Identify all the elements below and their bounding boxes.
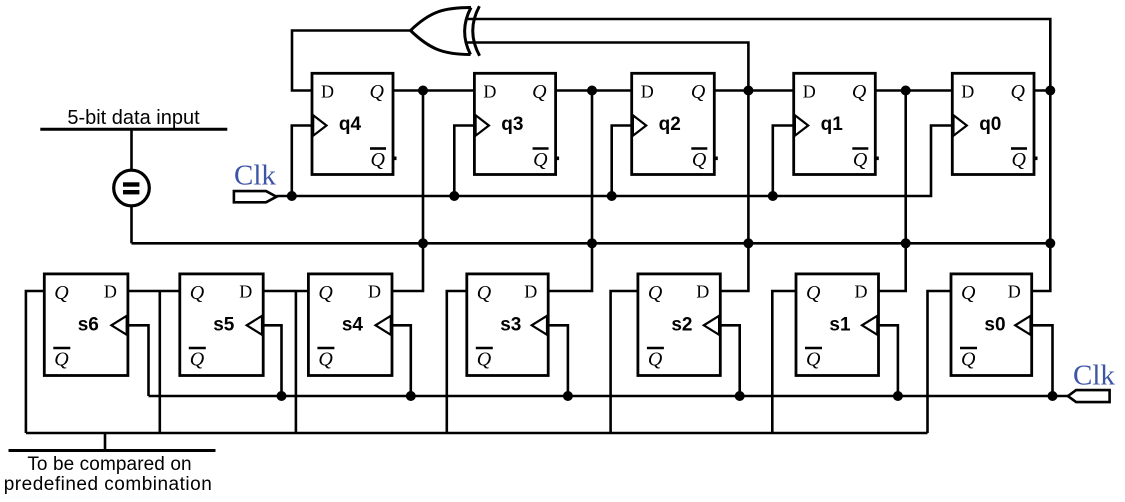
junction on q4 Q output bbox=[418, 86, 428, 96]
wire: s6 D to s5 Q link bbox=[128, 290, 180, 293]
D flip-flop s0 bbox=[951, 274, 1032, 376]
svg-text:D: D bbox=[104, 282, 117, 302]
wire: q1 Q down to s1 D bbox=[879, 91, 906, 292]
D flip-flop s4 bbox=[308, 274, 392, 376]
svg-text:D: D bbox=[524, 282, 537, 302]
wire: q4 Q down to s4 D bbox=[392, 91, 423, 292]
wire: q2 Q to q1 D bbox=[714, 89, 793, 92]
wire: s1 Q output down to compare line bbox=[772, 291, 796, 433]
wire: clock tap to s0 bbox=[1032, 325, 1053, 396]
svg-text:Q: Q bbox=[533, 149, 548, 171]
D flip-flop q2 bbox=[632, 73, 718, 174]
svg-text:Q: Q bbox=[532, 81, 547, 103]
svg-text:Q: Q bbox=[853, 149, 868, 171]
svg-text:Q: Q bbox=[318, 349, 333, 371]
svg-text:Q: Q bbox=[852, 81, 867, 103]
wire: s6 Q output down to compare line bbox=[26, 291, 44, 433]
junction on q2 Q output bbox=[743, 86, 753, 96]
svg-text:q3: q3 bbox=[501, 114, 523, 135]
svg-text:Q: Q bbox=[806, 282, 821, 304]
svg-text:q0: q0 bbox=[979, 114, 1001, 135]
D flip-flop q0 bbox=[952, 73, 1037, 174]
wire: q0 Q down to s0 D bbox=[1032, 91, 1051, 292]
wire: data input to comparator bbox=[130, 129, 133, 171]
wire: clock tap to q2 bbox=[612, 126, 632, 197]
wire: q2 Q down to s2 D bbox=[720, 91, 748, 292]
svg-text:predefined combination: predefined combination bbox=[4, 474, 213, 495]
wire: s5 D to s4 Q link bbox=[263, 290, 308, 293]
wire: s6 clock wire bbox=[128, 325, 149, 396]
D flip-flop s2 bbox=[638, 274, 720, 376]
svg-text:Q: Q bbox=[370, 81, 385, 103]
junction of q0 drop on comparator bus bbox=[1045, 238, 1055, 248]
svg-text:D: D bbox=[239, 282, 252, 302]
D flip-flop s3 bbox=[467, 274, 548, 376]
junction clock tap q2 bbox=[607, 191, 617, 201]
wire: xor output to q4 D input bbox=[292, 31, 411, 91]
svg-text:q2: q2 bbox=[659, 114, 681, 135]
wire: xor input 1 from q0 Q (top feedback) bbox=[468, 19, 1051, 91]
svg-text:To be compared on: To be compared on bbox=[27, 454, 191, 475]
D flip-flop s6 bbox=[44, 274, 128, 376]
wire: s0 Q output down to compare line bbox=[928, 291, 952, 433]
junction clock tap s5 bbox=[277, 391, 287, 401]
wire: xor input 2 from q2 Q (second feedback) bbox=[467, 43, 749, 91]
junction clock tap s4 bbox=[406, 391, 416, 401]
D flip-flop s5 bbox=[180, 274, 263, 376]
wire: clock tap to q4 bbox=[292, 126, 312, 197]
junction clock tap q3 bbox=[449, 191, 459, 201]
svg-text:D: D bbox=[803, 82, 816, 102]
svg-text:Q: Q bbox=[806, 349, 821, 371]
wire: clock tap to s1 bbox=[879, 325, 898, 396]
wire: top clock bus bbox=[277, 126, 953, 197]
svg-text:Q: Q bbox=[648, 282, 663, 304]
svg-text:Q: Q bbox=[190, 282, 205, 304]
svg-text:Q: Q bbox=[961, 282, 976, 304]
wire: clock tap to s3 bbox=[548, 325, 568, 396]
wire: s2 Q output down to compare line bbox=[611, 291, 638, 433]
wire: q3 Q down to s3 D bbox=[548, 91, 592, 292]
junction of q3 drop on comparator bus bbox=[587, 238, 597, 248]
svg-text:D: D bbox=[696, 282, 709, 302]
clock input flag (bottom) bbox=[1068, 390, 1110, 402]
svg-text:Q: Q bbox=[1012, 149, 1027, 171]
junction clock tap s0 bbox=[1048, 391, 1058, 401]
svg-text:Q: Q bbox=[54, 349, 69, 371]
svg-text:Q: Q bbox=[54, 282, 69, 304]
D flip-flop q4 bbox=[312, 73, 397, 174]
svg-text:q4: q4 bbox=[339, 114, 362, 135]
svg-text:D: D bbox=[368, 282, 381, 302]
junction of q1 drop on comparator bus bbox=[901, 238, 911, 248]
D flip-flop s1 bbox=[796, 274, 879, 376]
svg-text:Q: Q bbox=[190, 349, 205, 371]
junction clock tap s1 bbox=[893, 391, 903, 401]
wire: clock tap to q1 bbox=[773, 126, 794, 197]
comparator (equality) symbol bbox=[114, 170, 150, 206]
junction on q0 Q output bbox=[1045, 86, 1055, 96]
svg-text:Clk: Clk bbox=[1073, 360, 1115, 392]
svg-text:s1: s1 bbox=[829, 315, 851, 336]
junction of q2 drop on comparator bus bbox=[743, 238, 753, 248]
svg-text:q1: q1 bbox=[821, 114, 844, 135]
svg-text:Q: Q bbox=[371, 149, 386, 171]
junction on q1 Q output bbox=[901, 86, 911, 96]
compare collect line bbox=[26, 432, 928, 435]
wire: s3 Q output down to compare line bbox=[447, 291, 467, 433]
wire: clock tap to s2 bbox=[720, 325, 739, 396]
svg-text:D: D bbox=[1008, 282, 1021, 302]
svg-text:s5: s5 bbox=[213, 315, 235, 336]
svg-text:Clk: Clk bbox=[234, 160, 276, 192]
svg-text:Q: Q bbox=[692, 149, 707, 171]
svg-text:D: D bbox=[641, 82, 654, 102]
junction clock tap s2 bbox=[735, 391, 745, 401]
xor gate U1 (mirrored, output to left) bbox=[411, 6, 480, 56]
svg-text:D: D bbox=[961, 82, 974, 102]
svg-text:s4: s4 bbox=[342, 315, 364, 336]
wire: comparator output down bbox=[130, 206, 133, 244]
compare label line bbox=[9, 449, 216, 452]
wire: clock tap to s5 bbox=[263, 325, 281, 396]
5-bit data input bundle line bbox=[40, 128, 227, 131]
wire: s6 D link drop to compare line bbox=[159, 291, 162, 433]
junction clock tap s3 bbox=[563, 391, 573, 401]
junction on q3 Q output bbox=[587, 86, 597, 96]
clock input flag (top) bbox=[234, 191, 277, 202]
D flip-flop q3 bbox=[474, 73, 559, 174]
svg-text:Q: Q bbox=[477, 282, 492, 304]
wire: s5 D link drop to compare line bbox=[295, 291, 298, 433]
wire: bottom clock bus bbox=[149, 395, 1068, 398]
svg-text:Q: Q bbox=[648, 349, 663, 371]
junction clock tap q1 bbox=[768, 191, 778, 201]
compare bundle tick bbox=[104, 433, 107, 451]
wire: q1 Q to q0 D bbox=[875, 89, 952, 92]
wire: clock tap to s4 bbox=[392, 325, 411, 396]
wire: q0 Q output to feedback corner bbox=[1034, 89, 1050, 92]
junction clock tap q4 bbox=[287, 191, 297, 201]
svg-text:s2: s2 bbox=[671, 315, 692, 336]
svg-text:Q: Q bbox=[318, 282, 333, 304]
svg-text:Q: Q bbox=[691, 81, 706, 103]
wire: q3 Q to q2 D bbox=[556, 89, 632, 92]
svg-text:D: D bbox=[483, 82, 496, 102]
junction of q4 drop on comparator bus bbox=[418, 238, 428, 248]
svg-text:Q: Q bbox=[477, 349, 492, 371]
svg-text:Q: Q bbox=[961, 349, 976, 371]
svg-text:D: D bbox=[321, 82, 334, 102]
svg-text:5-bit data input: 5-bit data input bbox=[67, 107, 200, 129]
svg-text:D: D bbox=[855, 282, 868, 302]
svg-text:s0: s0 bbox=[984, 315, 1005, 336]
svg-text:s3: s3 bbox=[500, 315, 521, 336]
wire: clock tap to q3 bbox=[454, 126, 474, 197]
svg-text:s6: s6 bbox=[78, 315, 99, 336]
wire: comparator bus across bbox=[132, 242, 1051, 245]
wire: q4 Q to q3 D bbox=[393, 89, 474, 92]
D flip-flop q1 bbox=[794, 73, 879, 174]
svg-text:Q: Q bbox=[1011, 81, 1026, 103]
